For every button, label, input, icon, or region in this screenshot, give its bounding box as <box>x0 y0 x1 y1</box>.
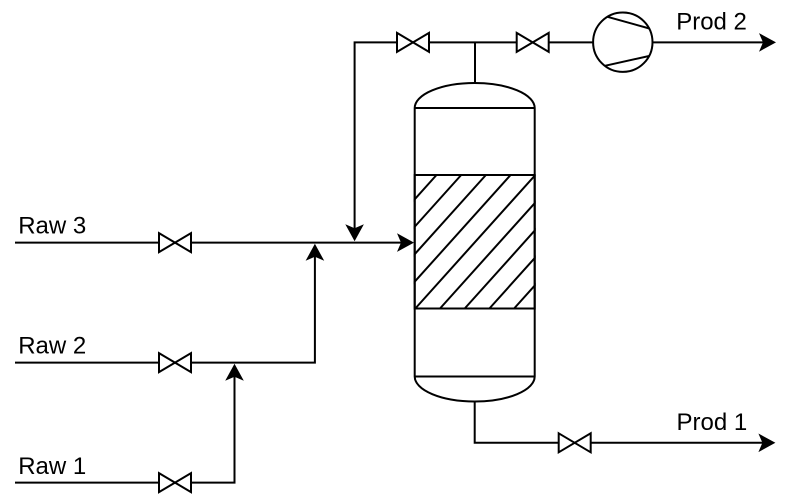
svg-text:Prod 2: Prod 2 <box>676 8 747 35</box>
svg-text:Raw 2: Raw 2 <box>18 333 86 360</box>
svg-text:Prod 1: Prod 1 <box>677 409 748 436</box>
svg-text:Raw 1: Raw 1 <box>18 453 86 480</box>
svg-text:Raw 3: Raw 3 <box>18 213 86 240</box>
